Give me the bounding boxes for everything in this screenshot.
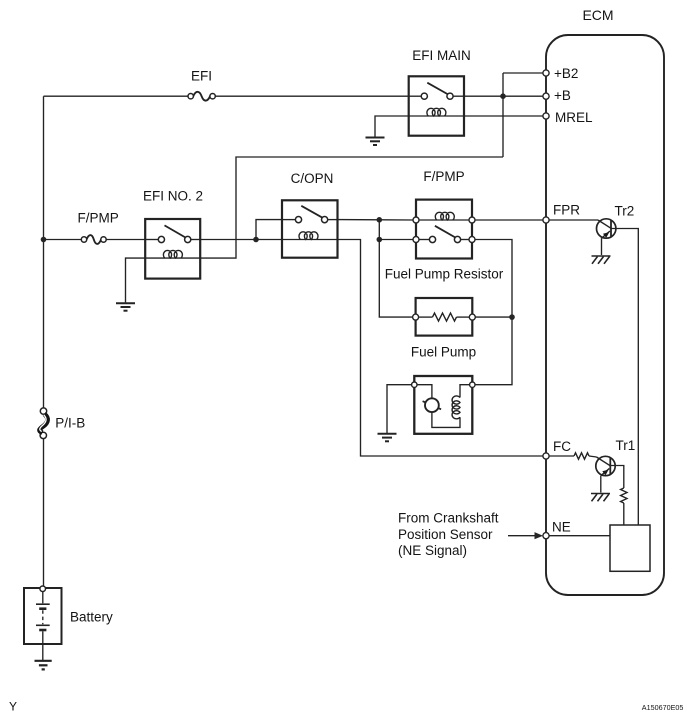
svg-text:(NE Signal): (NE Signal) — [398, 543, 467, 558]
resistor element (fuel pump resistor) — [413, 313, 476, 321]
wire: vertical x=379 down to fuel pump resistor — [379, 220, 413, 317]
ground (EFI MAIN coil) — [366, 138, 385, 146]
svg-text:Y: Y — [9, 700, 17, 714]
fuel pump box — [414, 376, 472, 434]
ground (Tr2, chassis) — [592, 256, 611, 264]
ground (fuel pump) — [378, 434, 397, 442]
node: junction fuel pump resistor right — [509, 314, 515, 320]
wire: Tr1 collector down to resistor — [610, 466, 624, 489]
wire: EFI NO.2 coil to ground — [126, 258, 146, 302]
wire: fuel pump left terminal to ground — [387, 385, 411, 433]
svg-text:Fuel Pump Resistor: Fuel Pump Resistor — [385, 267, 504, 282]
wire: resistor to NE circuit box — [623, 503, 625, 525]
relay C/OPN coil — [282, 232, 338, 240]
node: junction C/OPN input — [253, 237, 259, 243]
wire: F/PMP switch right down to fuel pump — [475, 240, 512, 385]
wire: resistor right terminal to junction — [475, 316, 512, 318]
wire: vertical branch at x=503 (+B2 above, MREL-net below) — [502, 73, 504, 157]
ground (EFI NO.2 coil) — [116, 303, 135, 311]
wire: from x=503 down-left to EFI NO.2 coil — [200, 157, 503, 258]
relay EFI NO.2 coil — [145, 250, 200, 258]
ECM box — [546, 35, 664, 595]
wire: node into C/OPN coil — [256, 239, 282, 241]
ground (battery) — [35, 661, 52, 670]
fuel pump motor circle — [423, 401, 442, 409]
svg-text:P/I-B: P/I-B — [55, 416, 85, 431]
wire: top horizontal from EFI fuse to EFI MAIN relay — [215, 95, 409, 97]
svg-text:FPR: FPR — [553, 203, 580, 218]
wire: EFI MAIN switch to +B pin — [464, 95, 543, 97]
node: junction on +B wire — [500, 93, 506, 99]
wire: left vertical from top line to P/I-B — [43, 96, 45, 408]
svg-text:Tr1: Tr1 — [616, 438, 636, 453]
wire: left vertical from P/I-B to battery — [43, 439, 45, 586]
svg-text:FC: FC — [553, 439, 571, 454]
svg-text:EFI: EFI — [191, 69, 212, 84]
wire: node to F/PMP switch left terminal — [379, 239, 413, 241]
relay C/OPN switch — [282, 206, 338, 223]
fuel pump motor internal wiring — [417, 385, 432, 399]
wire: FPR pin to Tr2 base — [549, 219, 598, 221]
fuse EFI — [188, 92, 215, 101]
relay C/OPN box — [282, 200, 338, 257]
resistor (Tr1 collector, vertical) — [621, 488, 627, 503]
svg-text:Fuel Pump: Fuel Pump — [411, 345, 476, 360]
svg-text:Position Sensor: Position Sensor — [398, 527, 493, 542]
arrow: NE signal input — [508, 532, 543, 539]
wire: Tr2 collector to NE box — [611, 229, 638, 526]
svg-text:+B: +B — [554, 88, 571, 103]
label From Crankshaft Position Sensor (NE Signal) — [398, 511, 499, 559]
wire: Tr1 emitter to ground — [600, 476, 602, 493]
battery cells — [36, 592, 50, 660]
transistor Tr1 — [596, 456, 615, 475]
svg-text:Tr2: Tr2 — [615, 204, 635, 219]
resistor (Tr1 base) — [574, 453, 589, 459]
wire: branch up to C/OPN switch input — [256, 220, 282, 240]
fuse F/PMP — [81, 235, 106, 244]
relay EFI MAIN box — [409, 76, 464, 135]
wire: EFI MAIN coil to MREL pin — [464, 115, 543, 117]
wire: from left vertical to F/PMP fuse — [44, 239, 82, 241]
fuel pump terminals — [412, 382, 417, 387]
fuel pump coil — [452, 396, 460, 419]
svg-text:+B2: +B2 — [554, 66, 578, 81]
wire: C/OPN switch output to F/PMP coil — [338, 219, 414, 221]
svg-text:NE: NE — [552, 520, 571, 535]
ground (Tr1, chassis) — [591, 494, 610, 502]
pin FPR — [543, 217, 549, 223]
svg-text:F/PMP: F/PMP — [78, 211, 119, 226]
svg-text:EFI NO. 2: EFI NO. 2 — [143, 189, 203, 204]
relay EFI NO.2 switch — [145, 225, 200, 242]
wire: +B2 horizontal to pin — [503, 72, 543, 74]
relay F/PMP coil — [413, 212, 475, 223]
battery box — [24, 588, 62, 644]
wire: F/PMP coil to FPR pin — [475, 219, 543, 221]
svg-text:EFI MAIN: EFI MAIN — [412, 48, 471, 63]
pin MREL — [543, 113, 549, 119]
svg-text:MREL: MREL — [555, 110, 593, 125]
NE circuit box inside ECM — [610, 525, 650, 571]
svg-text:Battery: Battery — [70, 610, 113, 625]
wire: fuse to EFI NO.2 relay — [106, 239, 145, 241]
relay EFI MAIN switch — [409, 83, 464, 100]
fuel pump resistor box — [416, 298, 473, 336]
wire: Tr2 emitter to ground — [601, 238, 603, 255]
node: junction F/PMP switch feed — [377, 237, 383, 243]
relay F/PMP box — [416, 200, 472, 259]
relay EFI NO.2 box — [145, 219, 200, 279]
wire: NE pin to internal box — [549, 535, 610, 537]
transistor Tr2 — [597, 219, 616, 238]
svg-text:A150670E05: A150670E05 — [642, 703, 684, 712]
battery terminal — [40, 586, 46, 592]
node: junction F/PMP coil feed — [377, 217, 383, 223]
node: junction battery feed / F-PMP fuse branch — [41, 237, 47, 243]
svg-text:C/OPN: C/OPN — [291, 171, 334, 186]
wire: EFI MAIN coil to ground — [375, 116, 409, 137]
fusible link P/I-B — [40, 408, 48, 439]
wire: FC pin to base resistor — [549, 455, 574, 457]
wire: resistor to Tr1 base — [589, 456, 597, 457]
wire: C/OPN coil right to FC line — [338, 240, 544, 457]
svg-text:From Crankshaft: From Crankshaft — [398, 511, 499, 526]
pin +B2 — [543, 70, 549, 76]
relay EFI MAIN coil — [409, 108, 464, 116]
svg-text:F/PMP: F/PMP — [423, 169, 464, 184]
relay F/PMP switch — [413, 226, 475, 243]
pin NE — [543, 533, 549, 539]
pin FC — [543, 453, 549, 459]
svg-text:ECM: ECM — [582, 7, 613, 23]
pin +B — [543, 93, 549, 99]
wire: top horizontal from left vertical to EFI fuse — [44, 95, 189, 97]
wire: EFI NO.2 switch to C/OPN node — [200, 239, 256, 241]
